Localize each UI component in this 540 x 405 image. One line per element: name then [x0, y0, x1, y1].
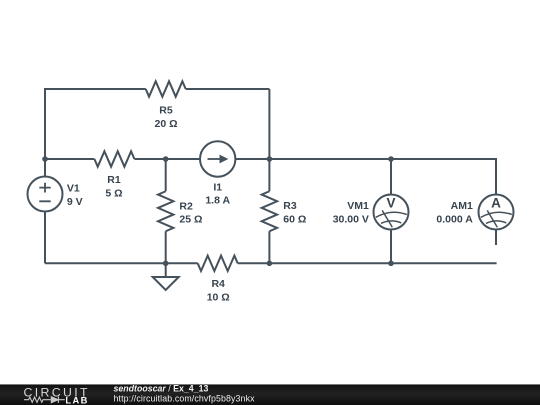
- svg-text:V1: V1: [67, 182, 80, 194]
- I1 arrow: [208, 155, 229, 164]
- V1 plus minus marks: [39, 183, 50, 202]
- svg-text:0.000 A: 0.000 A: [436, 214, 473, 226]
- wire V1 bottom lead: [44, 212, 46, 264]
- svg-text:R4: R4: [211, 278, 225, 290]
- svg-text:5 Ω: 5 Ω: [105, 188, 122, 200]
- svg-text:http://circuitlab.com/chvfp5b8: http://circuitlab.com/chvfp5b8y3nkx: [114, 393, 256, 403]
- svg-text:AM1: AM1: [451, 200, 473, 212]
- wire mid rail I1 to AM1 corner: [235, 159, 496, 195]
- svg-text:sendtooscar / Ex_4_13: sendtooscar / Ex_4_13: [114, 383, 209, 393]
- svg-text:9 V: 9 V: [67, 196, 83, 208]
- wire V1 top lead: [44, 159, 46, 177]
- svg-text:VM1: VM1: [347, 200, 369, 212]
- svg-text:60 Ω: 60 Ω: [283, 214, 306, 226]
- svg-text:LAB: LAB: [65, 395, 87, 405]
- resistor R1: [94, 151, 134, 166]
- svg-text:R3: R3: [283, 200, 297, 212]
- wire mid rail V1 to R1: [45, 158, 94, 160]
- wire R2 bottom lead: [165, 231, 167, 263]
- wire top-left loop: left vertical + top rail to R5: [45, 89, 146, 159]
- svg-text:I1: I1: [213, 182, 222, 194]
- footer bar: [0, 385, 540, 405]
- svg-text:V: V: [386, 196, 395, 211]
- node dots: [42, 156, 394, 266]
- current source I1: [200, 141, 235, 176]
- svg-text:30.00 V: 30.00 V: [333, 214, 369, 226]
- svg-text:A: A: [491, 196, 501, 211]
- wire right vertical from top rail to mid rail: [268, 89, 270, 159]
- resistor R5: [146, 81, 186, 96]
- wire bottom rail right of R4: [238, 262, 497, 264]
- ammeter AM1: [479, 195, 514, 230]
- resistor R2: [158, 191, 173, 231]
- logo resistor glyph: [24, 397, 51, 402]
- wire VM1 top lead: [390, 159, 392, 195]
- VM1 meter needle: [376, 210, 407, 227]
- svg-text:R2: R2: [179, 200, 193, 212]
- svg-text:R1: R1: [107, 174, 121, 186]
- resistor R3: [262, 191, 277, 231]
- wire R3 bottom lead: [268, 231, 270, 263]
- wire AM1 bottom stub: [495, 230, 497, 246]
- voltage source V1: [28, 177, 63, 212]
- logo diode glyph: [51, 397, 65, 403]
- voltmeter VM1: [374, 195, 409, 230]
- wire VM1 bottom lead: [390, 230, 392, 264]
- svg-text:R5: R5: [159, 105, 173, 117]
- meter letters: [386, 196, 501, 211]
- footer bar top edge highlight: [0, 383, 540, 386]
- wire mid rail R1 to I1: [134, 158, 200, 160]
- svg-text:25 Ω: 25 Ω: [179, 214, 202, 226]
- AM1 meter needle: [481, 210, 512, 227]
- wire bottom rail left of R4: [45, 262, 198, 264]
- resistor R4: [198, 256, 238, 271]
- wire R3 top lead: [268, 159, 270, 191]
- svg-text:1.8 A: 1.8 A: [205, 195, 230, 207]
- svg-text:10 Ω: 10 Ω: [207, 292, 230, 304]
- wire R2 top lead: [165, 159, 167, 191]
- wire top rail right of R5: [186, 88, 270, 90]
- ground: [153, 263, 179, 290]
- svg-text:20 Ω: 20 Ω: [154, 118, 177, 130]
